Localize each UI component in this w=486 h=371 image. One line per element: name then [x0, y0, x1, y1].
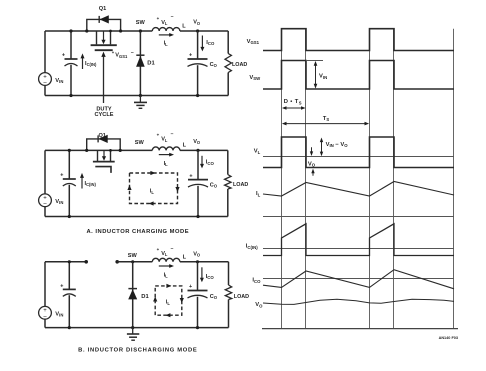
loop arrow top circuit3	[166, 284, 171, 288]
loop arrow left circuit3	[153, 297, 157, 302]
wire left rail circuit1	[44, 31, 46, 73]
wire top rail circuit1 left	[45, 30, 152, 32]
CIRCUIT1	[39, 6, 248, 118]
svg-text:VIN: VIN	[55, 312, 63, 318]
transistor Q1 body diode cathode bar	[98, 16, 100, 23]
svg-text:VO: VO	[193, 20, 201, 26]
reference line VSW top extension	[306, 60, 323, 62]
transistor Q1 circuit2 substrate arrow	[103, 150, 105, 156]
capacitor CO circuit2 lead top	[197, 150, 199, 179]
junction dot Q1 left	[85, 29, 88, 32]
transistor Q1 circuit2 body diode cathode bar	[97, 135, 99, 142]
svg-text:D1: D1	[147, 61, 155, 67]
transistor Q1 circuit2 channel plate	[93, 161, 115, 163]
resistor LOAD circuit3	[228, 262, 230, 285]
current arrow IL circuit1	[159, 34, 170, 36]
junction dot CIN top circuit2	[68, 149, 71, 152]
CIRCUIT2	[39, 132, 249, 236]
capacitor CO circuit3 lead bottom	[197, 297, 199, 328]
capacitor CIN circuit1 plates	[65, 58, 78, 60]
current arrow IL circuit2	[159, 154, 170, 156]
diode D1 circuit3 cathode bar	[128, 288, 137, 290]
svg-text:L: L	[183, 254, 187, 260]
loop arrow bottom circuit3	[165, 313, 170, 317]
svg-text:IL: IL	[166, 300, 171, 306]
svg-text:IC(IN): IC(IN)	[246, 244, 258, 250]
junction dot CIN bottom circuit2	[68, 215, 71, 218]
capacitor CIN circuit3 lead bottom	[68, 295, 70, 327]
current arrow ICIN circuit1	[82, 58, 84, 69]
diode D1 circuit3 branch wire	[132, 262, 134, 328]
junction dot CO bottom	[196, 94, 199, 97]
svg-text:VGS1: VGS1	[247, 39, 260, 45]
inductor L circuit1	[152, 28, 180, 31]
capacitor CIN circuit1 lead top	[70, 31, 72, 59]
svg-text:L: L	[182, 24, 186, 30]
wire bottom rail circuit2	[45, 216, 228, 218]
diode D1 circuit1 cathode bar	[136, 54, 144, 56]
loop arrow top circuit2	[150, 171, 155, 175]
waveform ICO trace	[263, 270, 454, 289]
capacitor CO circuit2 lead bottom	[197, 186, 199, 217]
grid vertical line t0	[281, 29, 283, 329]
svg-text:AN140 F03: AN140 F03	[439, 336, 458, 340]
svg-text:VGS1: VGS1	[115, 53, 128, 59]
junction dot Q1 drain leg circuit2	[109, 149, 112, 152]
svg-text:CO: CO	[210, 294, 218, 300]
wire top rail circuit3 after inductor	[180, 261, 229, 263]
dimension arrow VO upper	[311, 147, 313, 152]
capacitor CIN circuit3 plates	[63, 288, 76, 290]
wire top rail circuit2 right	[180, 149, 228, 151]
svg-text:LOAD: LOAD	[234, 294, 249, 300]
svg-text:SW: SW	[128, 253, 138, 259]
wire top rail circuit3 left open segment	[45, 261, 86, 263]
wire VIN to bottom rail	[44, 85, 46, 95]
junction dot CIN bottom	[69, 94, 72, 97]
transistor Q1 substrate arrow	[103, 31, 105, 40]
axis bottom	[262, 328, 458, 330]
dimension arrow D TS	[285, 107, 302, 109]
junction dot Q1 right	[119, 29, 122, 32]
svg-text:VIN: VIN	[319, 74, 327, 80]
transistor Q1 channel plate	[91, 44, 117, 46]
svg-text:VL: VL	[254, 149, 261, 155]
zero line ICO	[263, 278, 454, 280]
dimension arrow VO lower	[312, 172, 314, 175]
svg-text:IL: IL	[164, 272, 169, 278]
svg-text:IL: IL	[164, 161, 169, 167]
svg-text:VIN − VO: VIN − VO	[326, 142, 349, 148]
waveform VO trace	[263, 299, 454, 304]
svg-text:VL: VL	[161, 20, 168, 26]
svg-text:IL: IL	[150, 189, 155, 195]
svg-text:IC(IN): IC(IN)	[85, 61, 97, 67]
waveform VL trace	[263, 137, 454, 168]
CIRCUIT3	[39, 246, 250, 354]
junction dot Q1 left circuit2	[85, 149, 88, 152]
grid vertical line t1	[305, 29, 307, 329]
transistor Q1 circuit2 gate plate with stub	[95, 167, 111, 173]
svg-text:IL: IL	[256, 191, 261, 197]
waveform ICIN trace	[263, 224, 454, 256]
svg-text:−: −	[131, 50, 134, 56]
diode D1 circuit3 triangle	[128, 289, 137, 299]
svg-text:VL: VL	[161, 137, 168, 143]
svg-text:LOAD: LOAD	[233, 182, 248, 188]
junction dot D1 bottom	[139, 94, 142, 97]
svg-text:ICO: ICO	[206, 274, 215, 280]
svg-text:−: −	[171, 246, 174, 252]
svg-text:+: +	[60, 284, 63, 290]
inductor L circuit2	[152, 147, 180, 150]
svg-text:+: +	[189, 52, 192, 58]
waveform VGS1 trace	[263, 29, 454, 51]
open terminal dot left	[84, 260, 88, 264]
transistor Q1 gate plate	[95, 49, 113, 51]
svg-text:+: +	[189, 284, 192, 290]
grid vertical line t2	[369, 29, 371, 329]
capacitor CIN circuit3 lead top	[68, 262, 70, 289]
svg-text:A. INDUCTOR CHARGING MODE: A. INDUCTOR CHARGING MODE	[87, 229, 190, 235]
transistor Q1 body diode loop	[87, 19, 121, 31]
svg-text:SW: SW	[136, 20, 146, 26]
diode D1 circuit1 triangle	[136, 56, 145, 67]
junction dot Q1 right circuit2	[119, 149, 122, 152]
svg-text:−: −	[171, 14, 174, 20]
capacitor CIN circuit2 lead bottom	[68, 185, 70, 217]
current arrow ICO circuit1	[201, 36, 203, 48]
svg-text:Q1: Q1	[99, 6, 106, 12]
capacitor CIN circuit2 lead top	[68, 150, 70, 178]
capacitor CIN circuit2 plates	[63, 178, 76, 180]
resistor LOAD circuit2	[227, 150, 229, 174]
ground circuit3	[132, 328, 134, 334]
source VIN circuit3	[39, 306, 52, 319]
resistor LOAD circuit1	[227, 31, 229, 54]
svg-text:IL: IL	[164, 41, 169, 47]
svg-text:B. INDUCTOR DISCHARGING MODE: B. INDUCTOR DISCHARGING MODE	[78, 348, 197, 354]
junction dot CIN top	[69, 29, 72, 32]
svg-text:D1: D1	[141, 294, 149, 300]
wire bottom rail circuit3	[45, 327, 229, 329]
transistor Q1 circuit2 body diode loop	[87, 139, 121, 151]
dimension arrow TS	[285, 123, 366, 125]
svg-text:ICO: ICO	[206, 160, 215, 166]
wire top rail circuit1 right	[180, 30, 228, 32]
dimension arrow VIN	[315, 65, 317, 85]
source VIN circuit1	[39, 73, 52, 86]
junction dot CIN top circuit3	[68, 260, 71, 263]
wire VIN to bottom rail circuit2	[44, 207, 46, 217]
current arrow IL circuit3	[159, 265, 170, 267]
grid vertical line t4	[453, 29, 455, 329]
junction dot CIN bottom circuit3	[68, 326, 71, 329]
capacitor CO circuit1 plates	[188, 58, 208, 60]
capacitor CO circuit2 plates	[188, 179, 208, 181]
svg-text:IC(IN): IC(IN)	[85, 181, 97, 187]
wire top rail circuit3 right segment	[117, 261, 152, 263]
svg-text:L: L	[183, 142, 187, 148]
svg-text:ICO: ICO	[206, 40, 215, 46]
dashed current loop circuit3	[155, 286, 182, 315]
current arrow ICO circuit2	[201, 156, 203, 165]
dimension arrow VIN minus VO	[321, 141, 323, 153]
svg-text:−: −	[171, 132, 174, 138]
svg-text:VL: VL	[161, 251, 168, 257]
WAVEFORMS	[246, 29, 458, 340]
capacitor CO circuit1 lead bottom	[197, 65, 199, 95]
svg-text:CO: CO	[210, 182, 218, 188]
loop arrow right circuit3	[180, 298, 184, 303]
wire left rail circuit2	[44, 150, 46, 194]
svg-text:+: +	[60, 172, 63, 178]
loop arrow left circuit2	[127, 185, 131, 190]
svg-text:+: +	[189, 173, 192, 179]
svg-text:VIN: VIN	[55, 199, 63, 205]
wire bottom rail circuit1	[45, 95, 228, 97]
source VIN circuit2	[39, 194, 52, 207]
current arrow ICO circuit3	[201, 267, 203, 278]
svg-text:+: +	[157, 247, 160, 252]
waveform IL trace	[263, 182, 454, 197]
dashed current loop circuit2	[130, 173, 178, 204]
transistor Q1 circuit2 body diode triangle	[98, 135, 107, 143]
capacitor CO circuit1 lead top	[197, 31, 199, 59]
transistor Q1 source drain legs	[97, 31, 111, 44]
svg-text:ICO: ICO	[252, 278, 261, 284]
capacitor CIN circuit1 lead bottom	[70, 65, 72, 96]
zero line ICIN	[263, 248, 454, 250]
inductor L circuit3	[152, 258, 180, 261]
loop arrow right circuit2	[175, 187, 179, 192]
transistor Q1 gate lead arrow	[103, 57, 105, 103]
capacitor CO circuit3 plates	[188, 290, 208, 292]
svg-text:D • TS: D • TS	[284, 99, 302, 105]
svg-text:VIN: VIN	[55, 78, 63, 84]
svg-text:VSW: VSW	[249, 75, 261, 81]
capacitor CO circuit3 lead top	[197, 262, 199, 290]
svg-text:+: +	[157, 132, 160, 137]
svg-text:SW: SW	[135, 140, 145, 146]
grid vertical line t3	[393, 29, 395, 329]
junction dot CO bottom circuit3	[196, 326, 199, 329]
wire left rail circuit3	[44, 262, 46, 307]
transistor Q1 body diode triangle	[100, 15, 109, 23]
svg-text:VO: VO	[193, 139, 201, 145]
diode D1 circuit1 branch wire	[139, 31, 141, 96]
svg-text:+: +	[62, 52, 65, 58]
current arrow ICIN circuit2	[81, 177, 83, 188]
wire VIN to bottom rail circuit3	[44, 319, 46, 327]
loop arrow bottom circuit2	[149, 201, 154, 205]
svg-text:TS: TS	[323, 116, 329, 122]
transistor Q1 circuit2 source drain legs	[98, 150, 111, 161]
junction dot CO bottom circuit2	[196, 215, 199, 218]
svg-text:VO: VO	[193, 251, 201, 257]
zero line IL	[263, 216, 454, 218]
junction dot Q1 drain leg	[109, 30, 112, 33]
svg-text:VO: VO	[255, 302, 263, 308]
open terminal dot right	[115, 260, 119, 264]
zero line VL	[263, 156, 454, 158]
ground circuit1	[139, 96, 141, 102]
svg-text:LOAD: LOAD	[232, 62, 247, 68]
svg-text:+: +	[157, 16, 160, 21]
junction dot D1 bottom circuit3	[131, 326, 134, 329]
svg-text:CO: CO	[210, 62, 218, 68]
svg-text:VO: VO	[308, 161, 316, 167]
wire top rail circuit2 left	[45, 149, 152, 151]
svg-text:CYCLE: CYCLE	[95, 112, 114, 118]
waveform VSW trace	[263, 61, 454, 90]
